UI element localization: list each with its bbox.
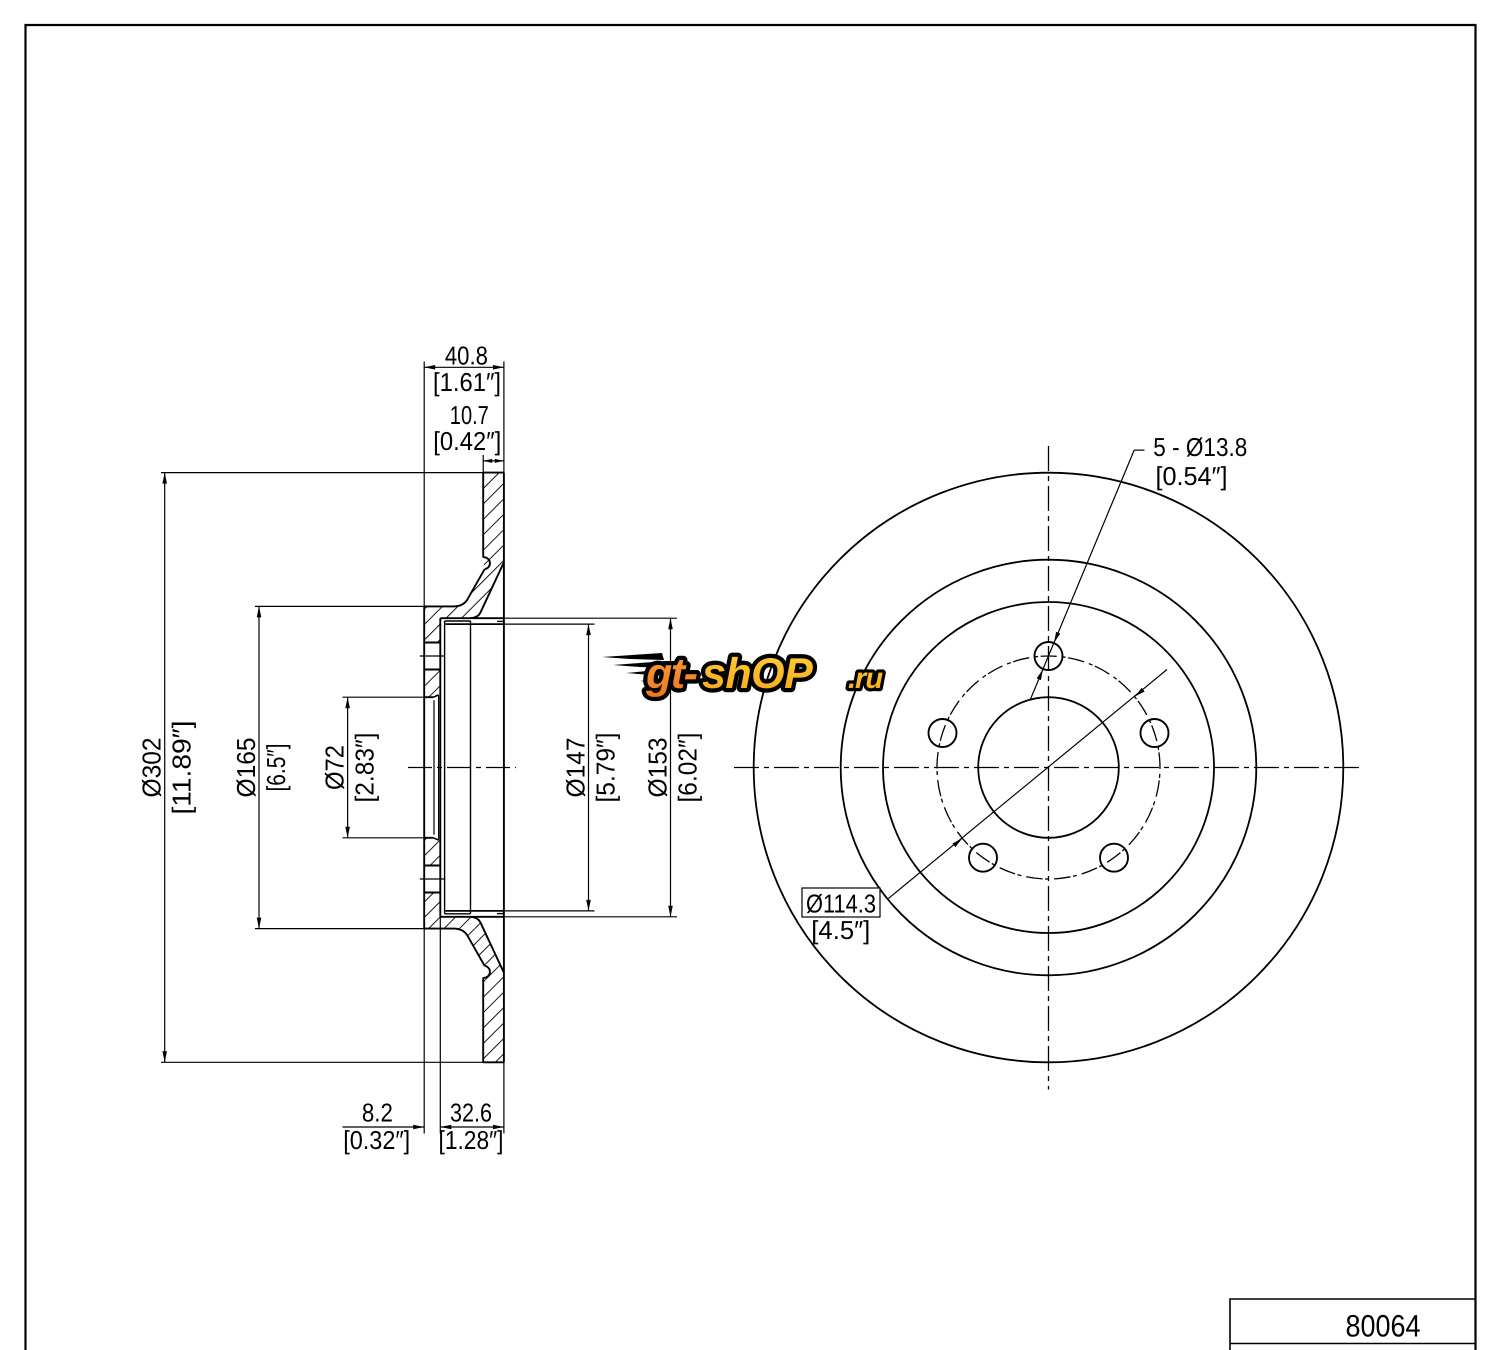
svg-text:Ø114.3: Ø114.3 bbox=[806, 888, 876, 918]
O153 extension top bbox=[504, 617, 677, 619]
32.6 arrow left bbox=[440, 1125, 451, 1130]
speed lines bbox=[602, 653, 676, 684]
O165 arrow bottom bbox=[257, 918, 262, 929]
O72 extension top bbox=[343, 696, 425, 698]
outer circle O302 bbox=[754, 473, 1344, 1063]
center bore O72 bottom bbox=[424, 837, 433, 839]
svg-text:[1.28″]: [1.28″] bbox=[439, 1125, 504, 1155]
disc ring bottom edge bbox=[483, 1061, 504, 1063]
hub mounting face bbox=[439, 618, 441, 917]
drum interior back edge bbox=[470, 621, 472, 914]
10.7 dimension line bbox=[483, 460, 504, 462]
braking surface inner circle bbox=[841, 560, 1257, 976]
O114.3 dimension line (diagonal) bbox=[889, 670, 1168, 899]
bolt hole centerline tick upper bbox=[420, 655, 445, 657]
bolt hole section bottom edge (upper) bbox=[424, 669, 440, 671]
hat cone inner surface lower bbox=[471, 917, 504, 973]
section hatch: ring+cone+rim upper bbox=[424, 473, 504, 643]
svg-text:[0.54″]: [0.54″] bbox=[1156, 461, 1228, 491]
svg-text:Ø165: Ø165 bbox=[231, 738, 261, 798]
O72 extension bottom bbox=[343, 837, 425, 839]
8.2 arrow bbox=[413, 1125, 424, 1130]
8.2 dimension line bbox=[343, 1126, 425, 1128]
bolt hole section top edge bbox=[424, 642, 440, 644]
drum interior step bottom bbox=[445, 913, 471, 915]
svg-text:[6.02″]: [6.02″] bbox=[673, 733, 703, 803]
hat flange circle O165 bbox=[883, 602, 1214, 933]
section hatch: flange mid lower bbox=[424, 838, 440, 866]
bolt hole 1 O13.8 bbox=[1035, 642, 1063, 670]
svg-text:Ø302: Ø302 bbox=[137, 738, 167, 798]
O114.3 arrow upper-right bbox=[1135, 688, 1145, 697]
bore chamfer edge circle bbox=[438, 695, 440, 839]
svg-text:shOP: shOP bbox=[702, 650, 813, 698]
leader arrow upper (at hole edge) bbox=[1054, 632, 1060, 643]
40.8 extension right bbox=[503, 362, 505, 473]
O153 extension bottom bbox=[504, 916, 677, 918]
flange rim bottom edge (O165) bbox=[424, 928, 454, 930]
undercut notch lower bbox=[483, 966, 490, 978]
svg-text:.ru: .ru bbox=[848, 663, 883, 695]
drum outer surface bottom (O153) bbox=[440, 916, 504, 918]
flange rim top edge (O165) bbox=[424, 605, 454, 607]
bolt circle O114.3 (dash-dot) bbox=[937, 656, 1160, 879]
bolt hole centerline tick lower bbox=[420, 878, 445, 880]
O114.3 arrow lower-left bbox=[952, 838, 962, 847]
hat cone outer surface lower bbox=[454, 929, 485, 966]
svg-text:32.6: 32.6 bbox=[450, 1097, 492, 1127]
right view horizontal centerline bbox=[734, 767, 1363, 769]
disc right face / drum open end bbox=[503, 473, 505, 1063]
svg-text:Ø153: Ø153 bbox=[643, 738, 673, 798]
svg-text:8.2: 8.2 bbox=[362, 1097, 393, 1127]
hat cone inner surface upper bbox=[471, 563, 504, 619]
O165 arrow top bbox=[257, 606, 262, 617]
drum interior step top bbox=[445, 620, 471, 622]
O165 extension top bbox=[255, 605, 424, 607]
hub left face bbox=[423, 606, 425, 928]
drum back face edge bbox=[444, 621, 446, 914]
O114.3 label box bbox=[802, 888, 880, 917]
10.7 extension bbox=[482, 455, 484, 473]
O302 arrow top bbox=[162, 473, 167, 484]
32.6 extension right bbox=[503, 1062, 505, 1133]
center bore O72 top bbox=[424, 696, 433, 698]
drum outer surface top (O153) bbox=[440, 617, 504, 619]
leader line 5-O13.8 bbox=[1030, 450, 1134, 700]
bolt hole 3 O13.8 bbox=[1100, 844, 1128, 872]
O72 arrow bottom bbox=[345, 827, 350, 838]
bore edge circle bbox=[433, 700, 435, 835]
drum inner surface top (O147) bbox=[446, 623, 504, 625]
svg-text:5 - Ø13.8: 5 - Ø13.8 bbox=[1153, 432, 1247, 462]
bolt hole 4 O13.8 bbox=[929, 719, 957, 747]
ring left face upper bbox=[482, 473, 484, 558]
O72 dimension line bbox=[347, 697, 349, 838]
8.2 extension left bbox=[423, 929, 425, 1134]
svg-text:Ø72: Ø72 bbox=[320, 745, 350, 790]
10.7 arrow right bbox=[495, 459, 504, 463]
O147 arrow bottom bbox=[586, 900, 591, 911]
bore chamfer bottom bbox=[433, 838, 438, 840]
ring left face lower bbox=[482, 978, 484, 1063]
svg-text:[5.79″]: [5.79″] bbox=[591, 733, 621, 803]
O147 dimension line bbox=[588, 624, 590, 911]
svg-text:[11.89″]: [11.89″] bbox=[167, 721, 197, 815]
bolt hole 5 O13.8 bbox=[969, 844, 997, 872]
O302 extension top bbox=[161, 472, 483, 474]
40.8 extension left bbox=[423, 362, 425, 607]
O165 extension bottom bbox=[255, 928, 424, 930]
O153 arrow bottom bbox=[668, 906, 673, 917]
watermark logo gt-shop.ru bbox=[602, 650, 883, 698]
40.8 arrow right bbox=[493, 365, 504, 370]
leader arrow lower (at hole edge) bbox=[1037, 669, 1043, 680]
O153 dimension line bbox=[670, 618, 672, 917]
title block bbox=[1230, 1299, 1475, 1350]
svg-text:80064: 80064 bbox=[1346, 1309, 1421, 1344]
left view center line bbox=[408, 767, 516, 769]
svg-text:40.8: 40.8 bbox=[445, 341, 488, 371]
section hatch: ring+cone+rim lower bbox=[424, 893, 504, 1063]
right view vertical centerline bbox=[1048, 446, 1050, 1090]
hat cone outer surface upper bbox=[454, 569, 485, 606]
bolt hole section bottom edge bbox=[424, 892, 440, 894]
O147 extension top bbox=[504, 623, 595, 625]
svg-text:gt-: gt- bbox=[645, 650, 698, 698]
bolt hole section top edge (lower) bbox=[424, 865, 440, 867]
leader underline tick bbox=[1134, 449, 1144, 451]
bolt hole 2 O13.8 bbox=[1141, 719, 1169, 747]
svg-text:[6.5″]: [6.5″] bbox=[261, 744, 291, 792]
10.7 arrow left bbox=[483, 459, 492, 463]
8.2/32.6 extension mid bbox=[439, 917, 441, 1134]
O147 arrow top bbox=[586, 624, 591, 635]
40.8 arrow left bbox=[424, 365, 435, 370]
32.6 arrow right bbox=[493, 1125, 504, 1130]
svg-text:Ø147: Ø147 bbox=[561, 738, 591, 798]
section hatch: flange mid upper bbox=[424, 670, 440, 698]
center bore circle O72 bbox=[978, 697, 1119, 838]
svg-text:[4.5″]: [4.5″] bbox=[811, 915, 870, 945]
O302 arrow bottom bbox=[162, 1051, 167, 1062]
drum inner surface bottom (O147) bbox=[446, 910, 504, 912]
O153 arrow top bbox=[668, 618, 673, 629]
O72 arrow top bbox=[345, 697, 350, 708]
bore chamfer top bbox=[433, 695, 438, 697]
svg-text:[0.32″]: [0.32″] bbox=[343, 1125, 410, 1155]
undercut notch upper bbox=[483, 557, 490, 569]
svg-text:[0.42″]: [0.42″] bbox=[433, 426, 501, 456]
32.6 dimension line bbox=[440, 1126, 504, 1128]
O302 dimension line bbox=[164, 473, 166, 1063]
svg-text:[2.83″]: [2.83″] bbox=[350, 733, 380, 803]
drum lip upper bbox=[497, 620, 504, 622]
40.8 dimension line bbox=[424, 366, 504, 368]
O147 extension bottom bbox=[504, 910, 595, 912]
disc ring top edge bbox=[483, 472, 504, 474]
svg-text:[1.61″]: [1.61″] bbox=[433, 367, 501, 397]
O165 dimension line bbox=[258, 606, 260, 928]
drum lip lower bbox=[497, 913, 504, 915]
O302 extension bottom bbox=[161, 1061, 483, 1063]
